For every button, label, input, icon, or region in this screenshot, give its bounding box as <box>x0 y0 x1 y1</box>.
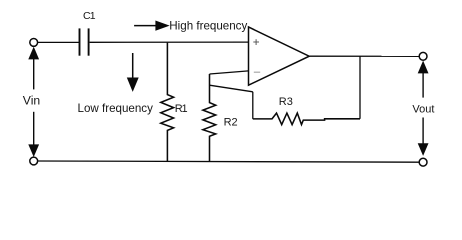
resistor R3 <box>253 113 360 125</box>
svg-text:Low frequency: Low frequency <box>78 102 154 115</box>
wire: feedback right vertical <box>359 56 361 119</box>
svg-text:R1: R1 <box>175 103 188 115</box>
annotation arrow: low frequency <box>127 53 139 92</box>
svg-text:Vin: Vin <box>23 93 40 107</box>
annotation arrow: Vin (double-headed) <box>28 47 39 157</box>
resistor R2 <box>203 74 216 162</box>
op-amp minus input marker <box>254 71 260 73</box>
wire: feedback slant from R2 node <box>210 85 253 92</box>
terminal bottom-right <box>419 158 427 166</box>
output terminal top-right <box>419 52 427 60</box>
capacitor C1 <box>80 28 89 55</box>
annotation arrow: Vout (double-headed) <box>418 61 429 156</box>
svg-text:R2: R2 <box>224 116 238 128</box>
wire: op-amp minus input stub <box>210 71 249 74</box>
wire: feedback left vertical <box>252 92 254 119</box>
terminal bottom-left <box>30 157 38 165</box>
svg-text:High frequency: High frequency <box>169 19 247 32</box>
annotation arrow: high frequency <box>134 21 170 31</box>
svg-text:C1: C1 <box>83 10 96 22</box>
svg-text:Vout: Vout <box>412 104 434 116</box>
op-amp plus input marker <box>253 39 259 45</box>
wire: op-amp output to terminal <box>309 55 419 57</box>
svg-text:R3: R3 <box>279 96 293 108</box>
op-amp U1 <box>249 27 310 85</box>
wire: C1 to op-amp + input (top rail) <box>90 41 249 43</box>
wire: input to C1 <box>38 41 79 43</box>
input terminal top-left <box>30 39 38 47</box>
wire: bottom rail <box>38 161 420 162</box>
resistor R1 <box>161 43 174 162</box>
